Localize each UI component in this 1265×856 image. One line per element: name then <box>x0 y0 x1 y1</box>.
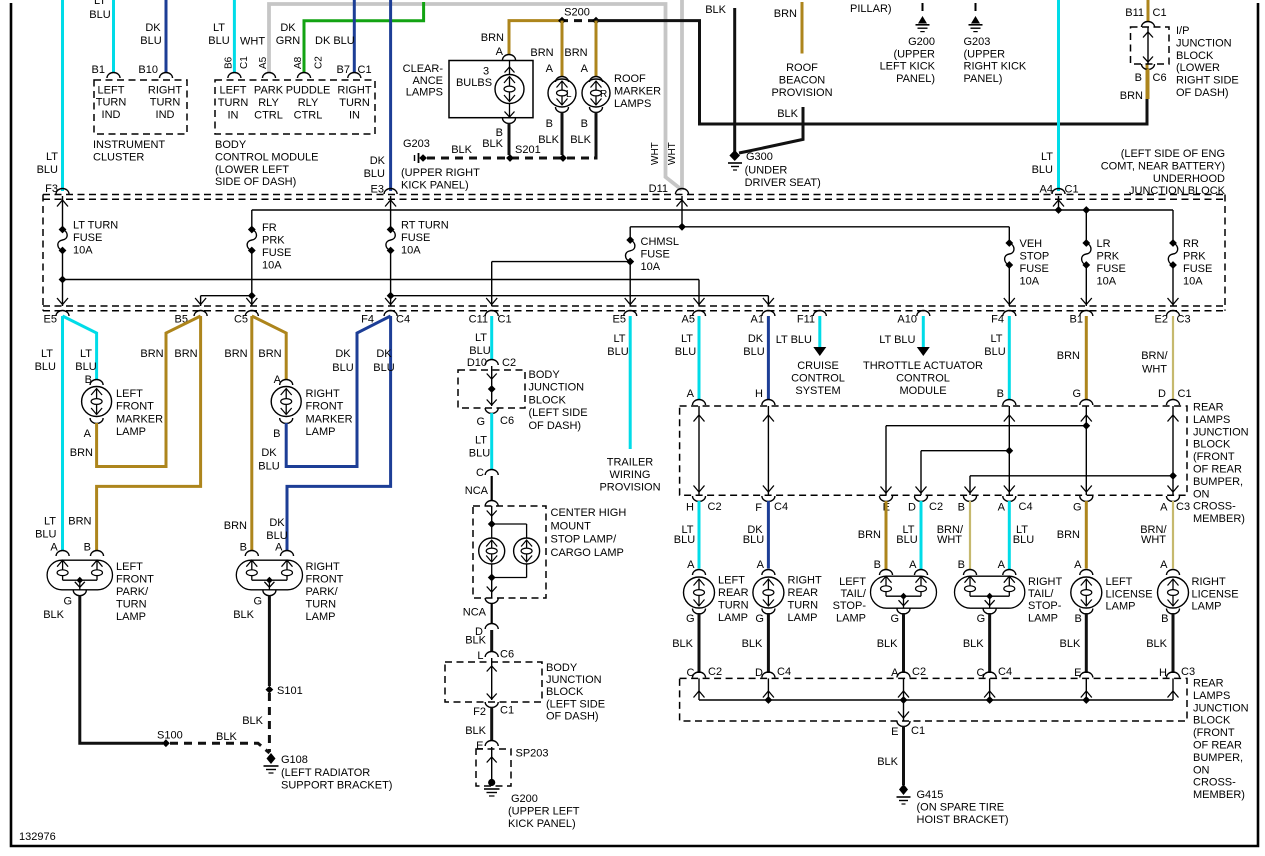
svg-text:E5: E5 <box>44 314 57 326</box>
svg-text:RLY: RLY <box>298 97 319 109</box>
svg-text:BLOCK: BLOCK <box>1193 715 1231 727</box>
svg-text:LICENSE: LICENSE <box>1106 588 1153 600</box>
svg-text:LEFT: LEFT <box>98 84 125 96</box>
svg-text:LEFT: LEFT <box>220 85 247 97</box>
svg-text:WIRING: WIRING <box>610 469 651 481</box>
svg-text:TAIL/: TAIL/ <box>841 588 867 600</box>
svg-text:C1: C1 <box>1178 388 1192 400</box>
svg-text:LT: LT <box>94 0 106 7</box>
svg-text:CROSS-: CROSS- <box>1193 777 1236 789</box>
svg-text:(ON SPARE TIRE: (ON SPARE TIRE <box>917 802 1005 814</box>
svg-text:A: A <box>1074 559 1082 571</box>
svg-text:132976: 132976 <box>19 831 56 843</box>
svg-text:A: A <box>891 667 899 679</box>
svg-text:BLU: BLU <box>607 346 628 358</box>
svg-text:L: L <box>566 89 572 100</box>
svg-text:JUNCTION: JUNCTION <box>1193 702 1249 714</box>
svg-text:A: A <box>84 428 92 440</box>
svg-text:DK: DK <box>269 517 285 529</box>
svg-text:D10: D10 <box>467 357 487 369</box>
svg-text:IN: IN <box>349 109 360 121</box>
svg-text:BLK: BLK <box>233 609 254 621</box>
svg-text:RIGHT: RIGHT <box>337 85 372 97</box>
svg-text:UNDERHOOD: UNDERHOOD <box>1153 173 1225 185</box>
svg-text:BLU: BLU <box>75 361 96 373</box>
svg-text:C2: C2 <box>912 666 926 678</box>
svg-text:BRN: BRN <box>1057 350 1080 362</box>
svg-text:G203: G203 <box>403 138 430 150</box>
svg-text:CLEAR-: CLEAR- <box>403 63 444 75</box>
svg-text:STOP-: STOP- <box>833 600 867 612</box>
svg-text:G: G <box>63 596 72 608</box>
svg-text:BULBS: BULBS <box>456 77 492 89</box>
svg-text:C1: C1 <box>911 725 925 737</box>
svg-text:H: H <box>686 502 694 514</box>
svg-text:LEFT: LEFT <box>718 575 745 587</box>
svg-text:10A: 10A <box>1097 276 1117 288</box>
svg-text:STOP: STOP <box>1020 251 1050 263</box>
svg-text:BRN: BRN <box>258 348 281 360</box>
svg-text:ROOF: ROOF <box>614 73 646 85</box>
svg-text:E5: E5 <box>613 314 626 326</box>
svg-text:BRN: BRN <box>140 348 163 360</box>
svg-text:WHT: WHT <box>1142 364 1167 376</box>
svg-text:FRONT: FRONT <box>116 574 154 586</box>
svg-text:STOP LAMP/: STOP LAMP/ <box>551 534 618 546</box>
svg-text:B11: B11 <box>1125 7 1144 19</box>
svg-text:GRN: GRN <box>276 35 301 47</box>
svg-text:DK: DK <box>145 22 161 34</box>
svg-text:10A: 10A <box>1020 276 1040 288</box>
svg-text:C: C <box>476 467 484 479</box>
svg-text:PROVISION: PROVISION <box>771 87 832 99</box>
svg-text:DRIVER SEAT): DRIVER SEAT) <box>745 177 821 189</box>
svg-text:LT: LT <box>613 333 625 345</box>
svg-text:CONTROL: CONTROL <box>791 373 845 385</box>
svg-text:OF DASH): OF DASH) <box>546 710 599 722</box>
svg-text:BUMPER,: BUMPER, <box>1193 752 1243 764</box>
svg-text:LAMP: LAMP <box>306 611 336 623</box>
svg-text:IN: IN <box>228 109 239 121</box>
svg-text:BLU: BLU <box>674 534 695 546</box>
svg-text:OF REAR: OF REAR <box>1193 740 1242 752</box>
svg-text:RIGHT: RIGHT <box>788 575 823 587</box>
svg-text:LT: LT <box>41 348 53 360</box>
svg-text:LAMP: LAMP <box>1028 612 1058 624</box>
svg-text:LAMP: LAMP <box>788 612 818 624</box>
svg-text:MARKER: MARKER <box>116 413 163 425</box>
svg-text:BLK: BLK <box>1060 638 1081 650</box>
svg-text:A: A <box>1160 559 1168 571</box>
svg-text:B: B <box>240 542 247 554</box>
svg-text:LAMP: LAMP <box>718 612 748 624</box>
svg-text:OF DASH): OF DASH) <box>1176 87 1229 99</box>
svg-text:F: F <box>755 502 762 514</box>
svg-text:C: C <box>687 667 695 679</box>
svg-text:C5: C5 <box>234 314 248 326</box>
svg-text:PRK: PRK <box>1097 251 1120 263</box>
svg-text:A5: A5 <box>258 56 269 69</box>
svg-text:BRN: BRN <box>174 348 197 360</box>
svg-text:BRN: BRN <box>858 529 881 541</box>
svg-text:CONTROL MODULE: CONTROL MODULE <box>215 151 319 163</box>
svg-text:A: A <box>581 63 589 75</box>
svg-text:G200: G200 <box>511 793 538 805</box>
svg-text:C11: C11 <box>469 314 488 326</box>
svg-text:(UPPER LEFT: (UPPER LEFT <box>508 806 580 818</box>
svg-text:D11: D11 <box>649 183 668 195</box>
svg-text:OF DASH): OF DASH) <box>529 420 582 432</box>
svg-text:BLU: BLU <box>140 35 161 47</box>
svg-text:H: H <box>755 388 763 400</box>
svg-text:FRONT: FRONT <box>306 574 344 586</box>
svg-text:E3: E3 <box>371 184 384 196</box>
svg-text:BRN: BRN <box>530 47 553 59</box>
svg-text:B: B <box>85 374 92 386</box>
svg-text:F11: F11 <box>797 314 815 326</box>
svg-text:S100: S100 <box>157 730 183 742</box>
svg-text:BUMPER,: BUMPER, <box>1193 476 1243 488</box>
svg-text:B6: B6 <box>224 56 235 69</box>
svg-text:RIGHT: RIGHT <box>306 388 341 400</box>
svg-text:BLOCK: BLOCK <box>1193 439 1231 451</box>
svg-text:JUNCTION: JUNCTION <box>546 674 602 686</box>
svg-text:LT: LT <box>681 333 693 345</box>
svg-text:WHT: WHT <box>667 142 678 165</box>
svg-text:BLU: BLU <box>469 345 490 357</box>
svg-text:TURN: TURN <box>96 97 127 109</box>
svg-text:(LOWER LEFT: (LOWER LEFT <box>215 164 289 176</box>
svg-text:FR: FR <box>262 222 277 234</box>
svg-text:A5: A5 <box>682 314 695 326</box>
svg-text:C4: C4 <box>998 666 1012 678</box>
svg-text:CROSS-: CROSS- <box>1193 501 1236 513</box>
svg-text:G: G <box>890 613 899 625</box>
svg-text:B1: B1 <box>1070 314 1083 326</box>
svg-text:FUSE: FUSE <box>401 232 430 244</box>
svg-text:A: A <box>546 63 554 75</box>
svg-text:PRK: PRK <box>262 235 285 247</box>
svg-text:FUSE: FUSE <box>1183 263 1212 275</box>
svg-text:LT: LT <box>46 151 58 163</box>
svg-text:BLU: BLU <box>1032 164 1053 176</box>
svg-text:REAR: REAR <box>1193 402 1224 414</box>
svg-text:LEFT KICK: LEFT KICK <box>880 61 936 73</box>
svg-text:B1: B1 <box>92 64 105 76</box>
svg-text:BLU: BLU <box>1013 534 1034 546</box>
svg-text:BLK: BLK <box>216 731 237 743</box>
svg-text:JUNCTION: JUNCTION <box>1176 37 1232 49</box>
svg-text:CENTER HIGH: CENTER HIGH <box>551 507 627 519</box>
svg-text:BLK: BLK <box>705 4 726 16</box>
svg-text:E2: E2 <box>1155 314 1168 326</box>
svg-text:BLK: BLK <box>43 609 64 621</box>
svg-text:CHMSL: CHMSL <box>641 236 680 248</box>
svg-text:DK BLU: DK BLU <box>315 35 355 47</box>
svg-text:C6: C6 <box>1153 72 1167 84</box>
svg-text:PARK/: PARK/ <box>306 586 339 598</box>
svg-text:FUSE: FUSE <box>641 249 670 261</box>
svg-text:BRN: BRN <box>68 516 91 528</box>
svg-text:B: B <box>958 559 965 571</box>
svg-text:TURN: TURN <box>218 97 249 109</box>
svg-text:INSTRUMENT: INSTRUMENT <box>93 139 165 151</box>
svg-text:BLU: BLU <box>743 346 764 358</box>
svg-text:SYSTEM: SYSTEM <box>795 385 840 397</box>
svg-text:C1: C1 <box>1065 184 1079 196</box>
svg-text:B7: B7 <box>337 64 350 76</box>
svg-text:B: B <box>1074 613 1081 625</box>
svg-text:PANEL): PANEL) <box>896 73 935 85</box>
svg-text:LAMP: LAMP <box>836 612 866 624</box>
svg-text:B: B <box>1135 72 1142 84</box>
svg-text:A: A <box>909 559 917 571</box>
svg-text:PARK/: PARK/ <box>116 586 149 598</box>
svg-text:REAR: REAR <box>718 587 749 599</box>
svg-text:RIGHT KICK: RIGHT KICK <box>964 61 1027 73</box>
svg-text:LICENSE: LICENSE <box>1192 588 1239 600</box>
svg-text:C2: C2 <box>708 666 722 678</box>
svg-text:(UPPER RIGHT: (UPPER RIGHT <box>401 167 480 179</box>
svg-text:BLOCK: BLOCK <box>529 394 567 406</box>
svg-text:BLK: BLK <box>570 134 591 146</box>
svg-text:FRONT: FRONT <box>116 401 154 413</box>
svg-text:10A: 10A <box>1183 276 1203 288</box>
svg-text:JUNCTION: JUNCTION <box>529 382 585 394</box>
svg-text:(LEFT RADIATOR: (LEFT RADIATOR <box>281 767 370 779</box>
svg-text:BLOCK: BLOCK <box>1176 50 1214 62</box>
svg-text:LEFT: LEFT <box>116 561 143 573</box>
svg-text:B: B <box>874 559 881 571</box>
svg-text:G203: G203 <box>964 36 991 48</box>
svg-text:C4: C4 <box>777 666 791 678</box>
svg-text:RIGHT SIDE: RIGHT SIDE <box>1176 75 1239 87</box>
svg-text:BODY: BODY <box>215 139 247 151</box>
svg-text:LT: LT <box>1041 151 1053 163</box>
svg-text:BLK: BLK <box>242 715 263 727</box>
svg-text:LAMP: LAMP <box>116 611 146 623</box>
svg-text:(LEFT SIDE: (LEFT SIDE <box>529 407 588 419</box>
svg-text:G: G <box>977 613 986 625</box>
svg-text:VEH: VEH <box>1020 238 1043 250</box>
svg-text:G: G <box>755 613 764 625</box>
svg-text:BLU: BLU <box>743 534 764 546</box>
svg-text:MODULE: MODULE <box>899 385 946 397</box>
svg-text:LT: LT <box>475 435 487 447</box>
svg-text:I/P: I/P <box>1176 25 1189 37</box>
svg-text:B: B <box>546 118 553 130</box>
svg-text:10A: 10A <box>73 245 93 257</box>
svg-text:(LOWER: (LOWER <box>1176 62 1220 74</box>
svg-text:(FRONT: (FRONT <box>1193 727 1235 739</box>
svg-text:(LEFT SIDE OF ENG: (LEFT SIDE OF ENG <box>1121 148 1225 160</box>
svg-text:BLK: BLK <box>465 725 486 737</box>
svg-text:C3: C3 <box>1181 666 1195 678</box>
svg-text:MARKER: MARKER <box>614 86 661 98</box>
svg-text:C3: C3 <box>1176 501 1190 513</box>
svg-text:3: 3 <box>483 66 489 78</box>
svg-text:BLK: BLK <box>465 635 486 647</box>
svg-text:LT TURN: LT TURN <box>73 220 118 232</box>
svg-text:JUNCTION: JUNCTION <box>1193 426 1249 438</box>
svg-text:C4: C4 <box>774 501 788 513</box>
svg-text:BLU: BLU <box>89 9 110 21</box>
svg-text:BLU: BLU <box>896 534 917 546</box>
svg-text:PARK: PARK <box>254 85 284 97</box>
svg-text:A: A <box>998 502 1006 514</box>
svg-text:LAMPS: LAMPS <box>614 98 651 110</box>
svg-text:S201: S201 <box>515 144 541 156</box>
svg-text:TURN: TURN <box>116 599 147 611</box>
svg-text:DK: DK <box>261 447 277 459</box>
svg-text:LT: LT <box>213 22 225 34</box>
svg-text:C2: C2 <box>502 357 516 369</box>
svg-text:10A: 10A <box>401 245 421 257</box>
svg-text:F2: F2 <box>473 706 486 718</box>
svg-text:TURN: TURN <box>339 97 370 109</box>
svg-text:B: B <box>1161 613 1168 625</box>
svg-text:BRN/: BRN/ <box>1141 350 1168 362</box>
svg-text:LAMPS: LAMPS <box>1193 414 1230 426</box>
svg-text:G: G <box>1072 388 1081 400</box>
svg-text:G: G <box>686 613 695 625</box>
svg-text:LT BLU: LT BLU <box>776 334 812 346</box>
svg-text:A: A <box>687 559 695 571</box>
svg-text:ANCE: ANCE <box>412 75 443 87</box>
svg-text:BLU: BLU <box>332 362 353 374</box>
svg-text:BLU: BLU <box>373 362 394 374</box>
svg-text:SP203: SP203 <box>516 748 549 760</box>
svg-text:HOIST BRACKET): HOIST BRACKET) <box>917 814 1009 826</box>
svg-text:G108: G108 <box>281 754 308 766</box>
svg-text:DK: DK <box>335 348 351 360</box>
svg-text:10A: 10A <box>641 261 661 273</box>
svg-text:C2: C2 <box>708 501 722 513</box>
svg-text:BEACON: BEACON <box>779 75 826 87</box>
svg-text:G: G <box>476 416 485 428</box>
svg-text:BLK: BLK <box>538 134 559 146</box>
svg-text:SUPPORT BRACKET): SUPPORT BRACKET) <box>281 780 392 792</box>
svg-text:A: A <box>757 559 765 571</box>
svg-text:WHT: WHT <box>1141 534 1166 546</box>
svg-text:B: B <box>997 388 1004 400</box>
svg-text:LR: LR <box>1097 238 1111 250</box>
svg-text:C1: C1 <box>498 314 512 326</box>
svg-text:A: A <box>998 559 1006 571</box>
svg-text:PUDDLE: PUDDLE <box>286 85 331 97</box>
svg-text:BLK: BLK <box>672 638 693 650</box>
svg-text:BLU: BLU <box>35 361 56 373</box>
svg-text:RIGHT: RIGHT <box>306 561 341 573</box>
svg-text:BLU: BLU <box>364 168 385 180</box>
svg-text:C1: C1 <box>239 56 250 69</box>
svg-text:TAIL/: TAIL/ <box>1028 588 1054 600</box>
svg-text:FUSE: FUSE <box>262 247 291 259</box>
svg-text:(UNDER: (UNDER <box>745 165 788 177</box>
svg-text:LAMP: LAMP <box>1106 601 1136 613</box>
svg-text:WHT: WHT <box>937 534 962 546</box>
svg-text:WHT: WHT <box>240 36 265 48</box>
svg-text:CTRL: CTRL <box>254 109 283 121</box>
svg-text:BODY: BODY <box>529 369 561 381</box>
svg-text:FUSE: FUSE <box>1020 263 1049 275</box>
svg-text:A1: A1 <box>751 314 764 326</box>
svg-text:LEFT: LEFT <box>116 388 143 400</box>
svg-text:THROTTLE ACTUATOR: THROTTLE ACTUATOR <box>863 360 983 372</box>
svg-text:LEFT: LEFT <box>839 576 866 588</box>
svg-text:MARKER: MARKER <box>306 413 353 425</box>
svg-text:BLK: BLK <box>963 638 984 650</box>
svg-text:KICK PANEL): KICK PANEL) <box>401 179 469 191</box>
svg-text:LAMPS: LAMPS <box>406 87 443 99</box>
svg-text:D: D <box>908 502 916 514</box>
svg-text:A: A <box>687 388 695 400</box>
svg-text:BLOCK: BLOCK <box>546 686 584 698</box>
svg-text:(UPPER: (UPPER <box>964 48 1006 60</box>
svg-text:CRUISE: CRUISE <box>797 360 839 372</box>
svg-text:G200: G200 <box>908 36 935 48</box>
svg-text:FUSE: FUSE <box>1097 263 1126 275</box>
svg-text:R: R <box>600 89 607 100</box>
svg-text:B: B <box>84 542 91 554</box>
svg-text:BRN: BRN <box>70 447 93 459</box>
svg-text:A8: A8 <box>293 56 304 69</box>
svg-text:ON: ON <box>1193 764 1210 776</box>
svg-text:WHT: WHT <box>650 142 661 165</box>
svg-text:MEMBER): MEMBER) <box>1193 789 1245 801</box>
svg-text:TURN: TURN <box>718 600 749 612</box>
svg-text:C2: C2 <box>314 56 325 69</box>
svg-text:LT: LT <box>475 332 487 344</box>
svg-text:REAR: REAR <box>788 587 819 599</box>
svg-text:MOUNT: MOUNT <box>551 520 592 532</box>
svg-text:G300: G300 <box>746 151 773 163</box>
svg-text:TURN: TURN <box>306 599 337 611</box>
svg-text:BODY: BODY <box>546 662 578 674</box>
svg-text:LAMPS: LAMPS <box>1193 690 1230 702</box>
svg-text:TRAILER: TRAILER <box>607 457 654 469</box>
svg-text:LT: LT <box>990 333 1002 345</box>
svg-text:(FRONT: (FRONT <box>1193 451 1235 463</box>
svg-text:S200: S200 <box>564 7 590 19</box>
svg-text:LEFT: LEFT <box>1106 576 1133 588</box>
svg-text:A: A <box>1160 502 1168 514</box>
svg-text:CTRL: CTRL <box>294 109 323 121</box>
svg-text:TURN: TURN <box>150 97 181 109</box>
svg-text:D: D <box>1158 388 1166 400</box>
svg-text:DK: DK <box>748 333 764 345</box>
svg-text:RR: RR <box>1183 238 1199 250</box>
svg-text:REAR: REAR <box>1193 678 1224 690</box>
svg-text:BRN: BRN <box>1057 529 1080 541</box>
svg-text:C4: C4 <box>396 314 410 326</box>
svg-text:BLU: BLU <box>675 346 696 358</box>
svg-text:BLU: BLU <box>208 35 229 47</box>
svg-text:F4: F4 <box>991 314 1004 326</box>
svg-text:B: B <box>958 502 965 514</box>
svg-text:ROOF: ROOF <box>786 62 818 74</box>
svg-text:IND: IND <box>102 109 121 121</box>
svg-text:OF REAR: OF REAR <box>1193 464 1242 476</box>
svg-text:LT BLU: LT BLU <box>879 334 915 346</box>
svg-text:LT: LT <box>44 516 56 528</box>
svg-text:E: E <box>891 726 898 738</box>
svg-text:ON: ON <box>1193 488 1210 500</box>
svg-text:BLU: BLU <box>35 529 56 541</box>
svg-text:NCA: NCA <box>463 607 487 619</box>
svg-text:E: E <box>476 740 483 752</box>
svg-text:BRN: BRN <box>481 32 504 44</box>
